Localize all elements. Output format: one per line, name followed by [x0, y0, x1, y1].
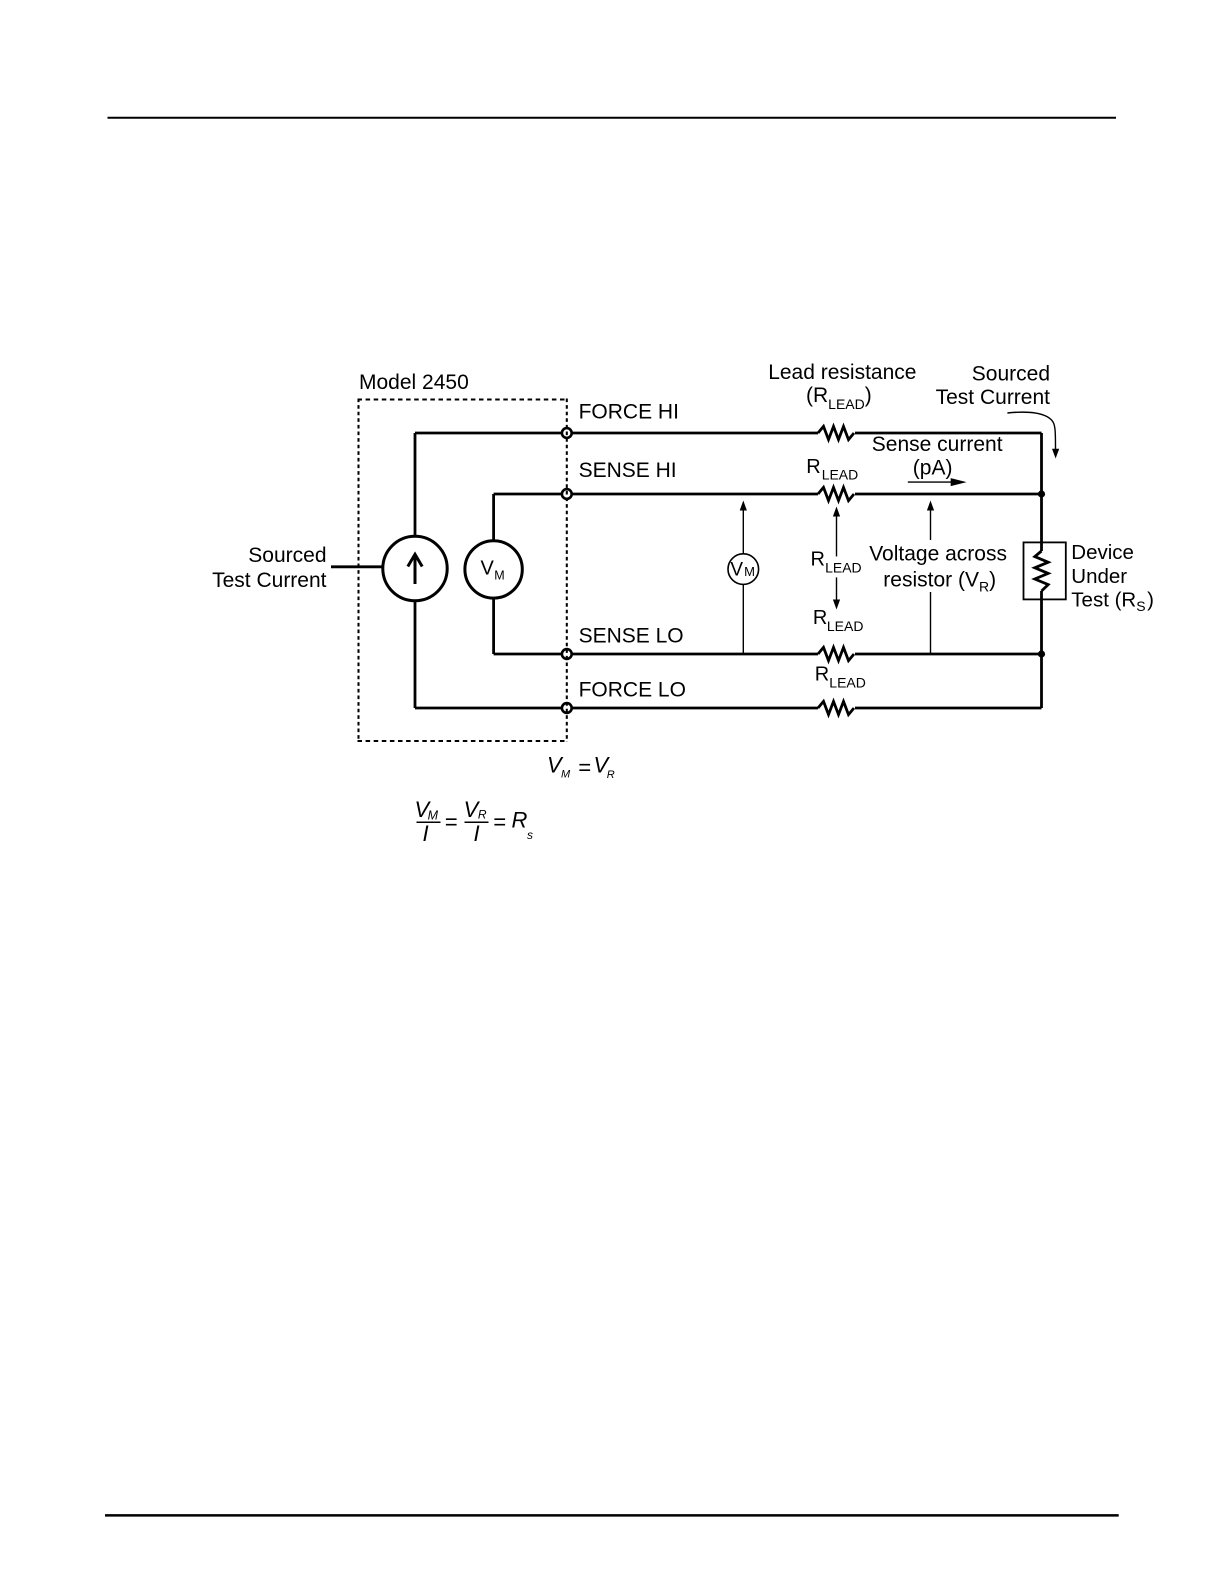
svg-text:Sourced: Sourced	[972, 363, 1050, 386]
svg-text:Model 2450: Model 2450	[359, 371, 469, 394]
svg-text:M: M	[561, 769, 571, 781]
svg-text:Under: Under	[1071, 565, 1127, 588]
svg-text:Lead resistance: Lead resistance	[768, 361, 916, 384]
svg-text:R: R	[512, 808, 528, 833]
svg-text:R: R	[811, 549, 825, 571]
svg-text:=: =	[445, 809, 458, 834]
svg-text:Sourced: Sourced	[248, 544, 326, 567]
svg-text:Voltage across: Voltage across	[869, 543, 1007, 566]
svg-text:SENSE LO: SENSE LO	[579, 624, 684, 647]
svg-text:LEAD: LEAD	[825, 560, 862, 576]
svg-text:=: =	[493, 809, 506, 834]
svg-text:M: M	[494, 569, 504, 583]
svg-text:M: M	[428, 809, 439, 823]
svg-text:LEAD: LEAD	[822, 467, 859, 483]
svg-text:SENSE HI: SENSE HI	[579, 459, 677, 482]
svg-text:R: R	[607, 769, 615, 781]
svg-text:V: V	[481, 557, 495, 579]
svg-text:Test Current: Test Current	[212, 569, 327, 592]
svg-text:M: M	[744, 564, 755, 579]
svg-text:R: R	[806, 456, 820, 478]
svg-text:Sense current: Sense current	[872, 433, 1003, 456]
svg-text:Device: Device	[1071, 541, 1134, 564]
svg-text:LEAD: LEAD	[829, 674, 866, 690]
svg-text:I: I	[474, 821, 480, 846]
svg-text:V: V	[730, 559, 743, 580]
svg-text:=: =	[578, 755, 591, 780]
svg-text:Test Current: Test Current	[936, 386, 1051, 409]
svg-text:LEAD: LEAD	[827, 618, 864, 634]
svg-text:I: I	[423, 821, 429, 846]
svg-text:R: R	[815, 663, 829, 685]
svg-text:R: R	[478, 808, 487, 822]
svg-text:s: s	[527, 828, 533, 842]
svg-text:(pA): (pA)	[913, 457, 953, 480]
svg-text:R: R	[813, 607, 827, 629]
svg-text:FORCE LO: FORCE LO	[579, 678, 686, 701]
svg-text:FORCE HI: FORCE HI	[579, 401, 679, 424]
